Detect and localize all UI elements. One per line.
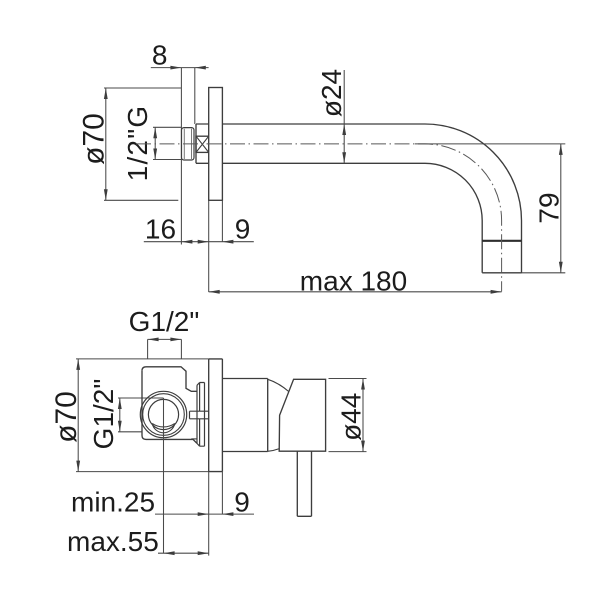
svg-text:max.55: max.55: [67, 526, 159, 557]
wire ext 79 top: [415, 143, 565, 145]
svg-text:16: 16: [145, 214, 176, 245]
wire ext dia44: [329, 379, 367, 452]
spout outlet bottom edge: [482, 272, 521, 274]
dim max55 line: [158, 552, 209, 554]
dim dia70 bottom line: [77, 359, 79, 472]
dim 1/2G line: [154, 127, 156, 159]
handle sleeve: [222, 379, 267, 452]
svg-text:9: 9: [235, 214, 251, 245]
wire ext 1/2G top: [153, 126, 182, 128]
wire ext 8 left: [180, 68, 182, 245]
dim dia70 line: [105, 88, 107, 200]
spout tube outline: [222, 124, 521, 273]
handle grip: [279, 379, 325, 451]
port hole cup: [152, 423, 175, 432]
handle transition curves: [268, 379, 289, 391]
neck bottom line: [191, 438, 197, 440]
flange of valve: [197, 383, 205, 447]
dim max 180 line: [209, 291, 502, 293]
wire ext dia70 bottom drawing: [76, 359, 209, 472]
valve body outline: [142, 367, 197, 392]
dim G1/2 left line: [119, 398, 121, 432]
cartridge stem: [190, 411, 209, 419]
wire ext G1/2 top: [148, 339, 182, 359]
dim dia24 line: [343, 70, 345, 163]
handle lever rod: [297, 451, 311, 516]
svg-text:79: 79: [534, 192, 565, 223]
wire ext dia70 bottom: [104, 199, 178, 201]
dim 79 line: [560, 144, 562, 273]
svg-text:9: 9: [234, 487, 250, 518]
dim 8 line: [151, 67, 209, 69]
wire ext 79 bottom: [522, 272, 566, 274]
wire ext 9 bottom: [209, 472, 223, 556]
wire ext 1/2G bottom: [153, 159, 182, 161]
svg-text:ø44: ø44: [336, 393, 367, 441]
svg-text:max 180: max 180: [300, 266, 407, 297]
wire ext 8 right: [194, 68, 196, 124]
tube inlet section: [196, 124, 209, 163]
wire ext dia70 top: [104, 87, 181, 89]
svg-text:ø70: ø70: [78, 113, 111, 165]
nut 1/2G nipple: [182, 128, 195, 160]
svg-text:ø70: ø70: [50, 391, 83, 443]
svg-text:1/2"G: 1/2"G: [122, 105, 153, 182]
stem crossing lines: [197, 411, 205, 419]
svg-text:ø24: ø24: [316, 69, 347, 117]
dim 9 bottom line: [155, 513, 254, 515]
centerline spout axis: [136, 144, 502, 292]
wire ext G1/2 left: [118, 398, 164, 432]
wall plate bottom drawing edges: [209, 359, 223, 472]
svg-text:G1/2": G1/2": [129, 306, 200, 337]
wall plate bottom drawing fill: [209, 359, 223, 472]
dim 16 and 9 line: [144, 241, 254, 243]
svg-text:G1/2": G1/2": [88, 379, 119, 450]
dim dia44 line: [362, 379, 364, 452]
svg-text:8: 8: [152, 40, 168, 71]
dim G1/2 top line: [148, 338, 182, 340]
wire ext 16-9 shared: [208, 200, 210, 292]
svg-text:min.25: min.25: [71, 487, 155, 518]
aerator joint line: [482, 240, 521, 242]
thread section crosshatch: [196, 136, 209, 152]
side port circles: [140, 391, 186, 437]
wall plate top drawing: [209, 88, 223, 201]
valve axis line: [163, 398, 165, 553]
